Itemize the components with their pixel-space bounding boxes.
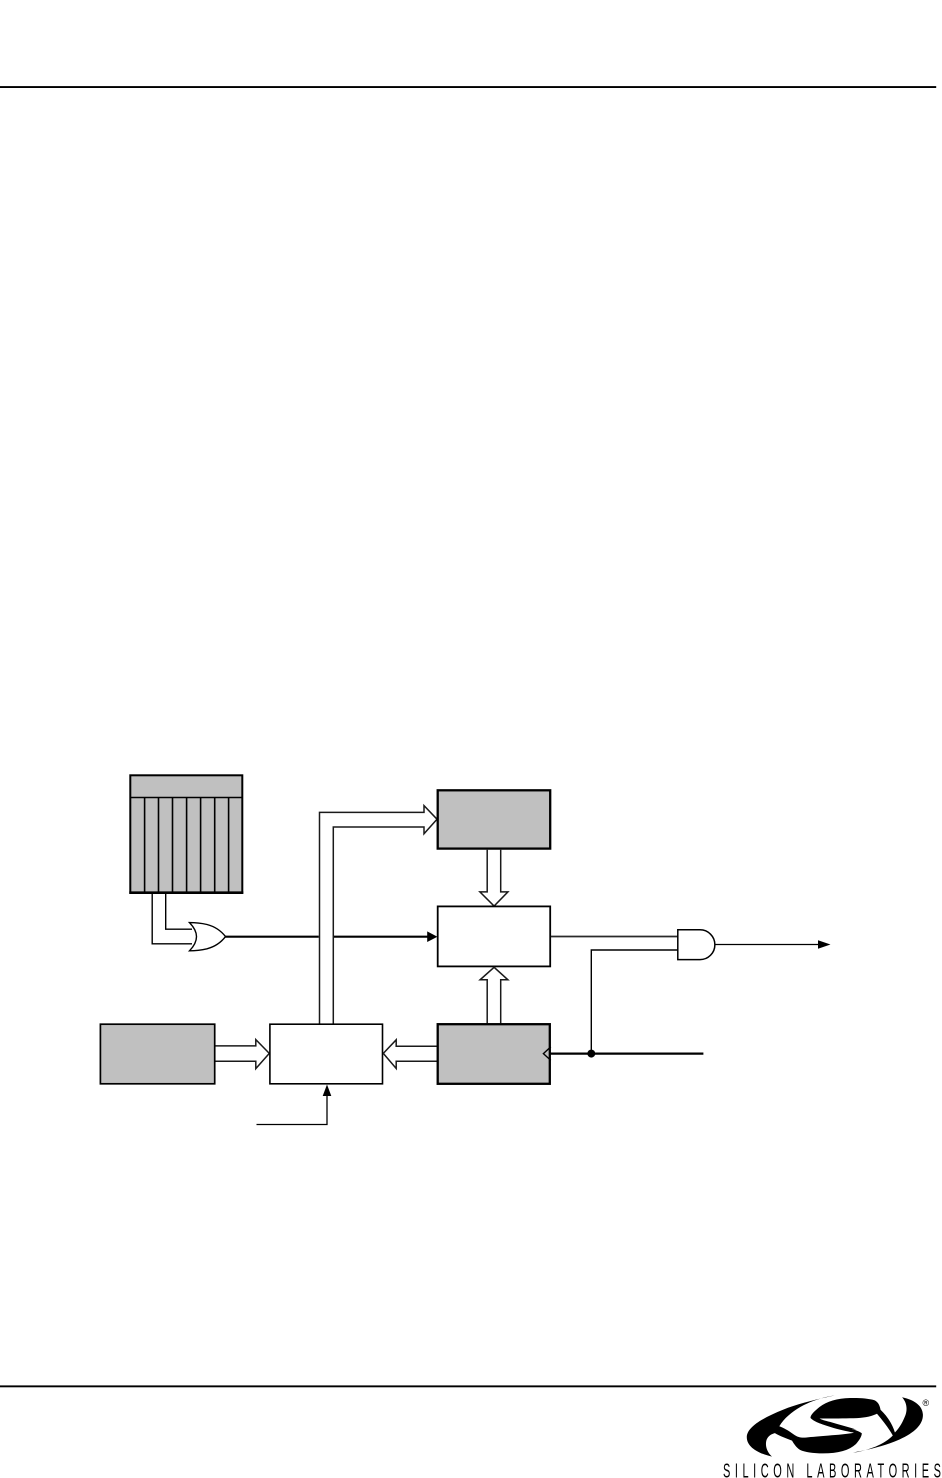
hollow block arrow right from bottom-left gray box into priority decoder	[216, 1040, 270, 1069]
hollow block arrow up from bottom-right gray box into center white box	[480, 967, 508, 1023]
OR output wire (right segment after crossing hollow arrow)	[334, 936, 429, 938]
thin wire arrow up into priority decoder bottom	[257, 1093, 328, 1125]
top gray box (interrupt pending flags)	[438, 790, 551, 848]
top header rule	[0, 86, 936, 88]
hollow block arrow down from top gray box into center white box	[480, 850, 508, 906]
Silicon Laboratories logo: lower-left swoosh	[747, 1395, 862, 1456]
enable wire into bottom-right gray box with open chevron arrowhead	[550, 1052, 704, 1054]
svg-text:SILICON LABORATORIES: SILICON LABORATORIES	[723, 1460, 941, 1478]
svg-text:®: ®	[923, 1398, 930, 1408]
wire from register bank to OR gate (long)	[152, 894, 192, 944]
hollow block arrow left from bottom-right gray box into priority decoder	[383, 1040, 437, 1069]
interrupt source register bank (striped gray box)	[129, 775, 243, 892]
AND output wire with solid arrowhead	[715, 944, 820, 946]
wire from junction up to AND gate lower input	[591, 950, 678, 1054]
bottom footer rule	[0, 1385, 936, 1387]
hollow elbow block arrow from priority decoder up into top gray box	[320, 806, 438, 1024]
OR gate	[190, 923, 226, 951]
wire from register bank to OR gate (short)	[166, 894, 192, 929]
Silicon Laboratories logo: upper-right swoosh	[810, 1397, 922, 1452]
bottom-left gray box	[100, 1024, 214, 1084]
bottom-right gray box	[438, 1024, 550, 1084]
AND gate	[678, 930, 715, 960]
center white box (interrupt logic)	[438, 906, 551, 966]
SILICON LABORATORIES wordmark	[723, 1460, 941, 1478]
bottom center white box (priority decoder)	[270, 1024, 383, 1084]
wire from interrupt logic box to AND gate upper input	[551, 936, 679, 938]
junction dot on enable wire	[587, 1050, 595, 1058]
OR output wire to interrupt-enable box (left segment)	[226, 936, 319, 938]
